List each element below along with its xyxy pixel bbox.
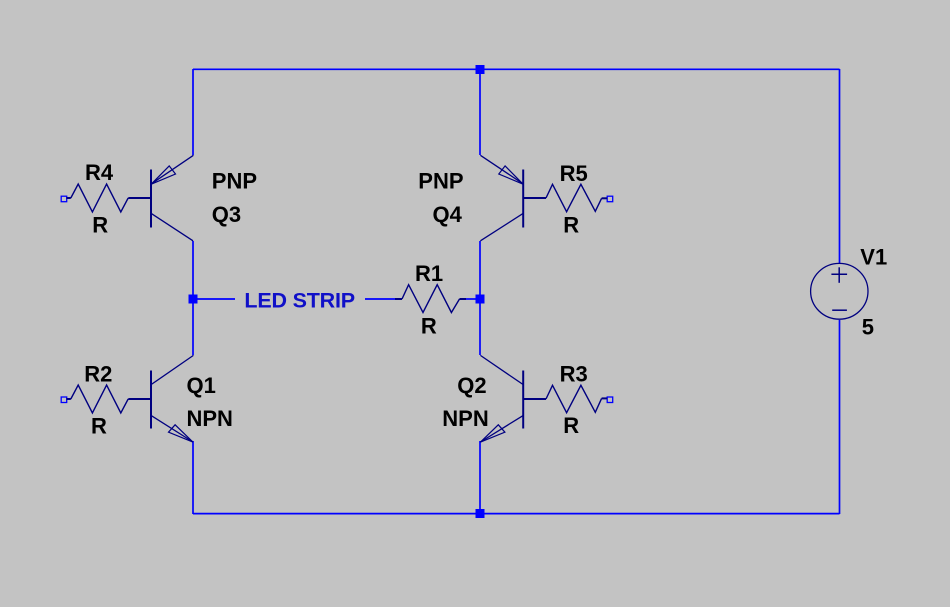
svg-text:R1: R1 <box>415 261 443 286</box>
svg-text:R2: R2 <box>84 362 112 387</box>
svg-text:Q3: Q3 <box>212 202 241 227</box>
svg-text:Q1: Q1 <box>187 373 216 398</box>
svg-text:R: R <box>92 213 108 238</box>
svg-text:V1: V1 <box>860 245 887 270</box>
svg-text:R4: R4 <box>85 160 114 185</box>
svg-text:NPN: NPN <box>187 406 233 431</box>
svg-text:Q4: Q4 <box>433 202 463 227</box>
svg-text:PNP: PNP <box>418 169 463 194</box>
svg-text:LED STRIP: LED STRIP <box>244 289 355 313</box>
svg-text:PNP: PNP <box>212 169 257 194</box>
svg-text:R: R <box>91 414 107 439</box>
svg-text:NPN: NPN <box>442 406 488 431</box>
svg-text:Q2: Q2 <box>457 373 486 398</box>
svg-text:5: 5 <box>862 315 874 340</box>
svg-text:R3: R3 <box>560 362 588 387</box>
svg-text:R: R <box>421 313 437 338</box>
svg-text:R5: R5 <box>560 161 588 186</box>
svg-text:R: R <box>563 413 579 438</box>
svg-text:R: R <box>563 213 579 238</box>
